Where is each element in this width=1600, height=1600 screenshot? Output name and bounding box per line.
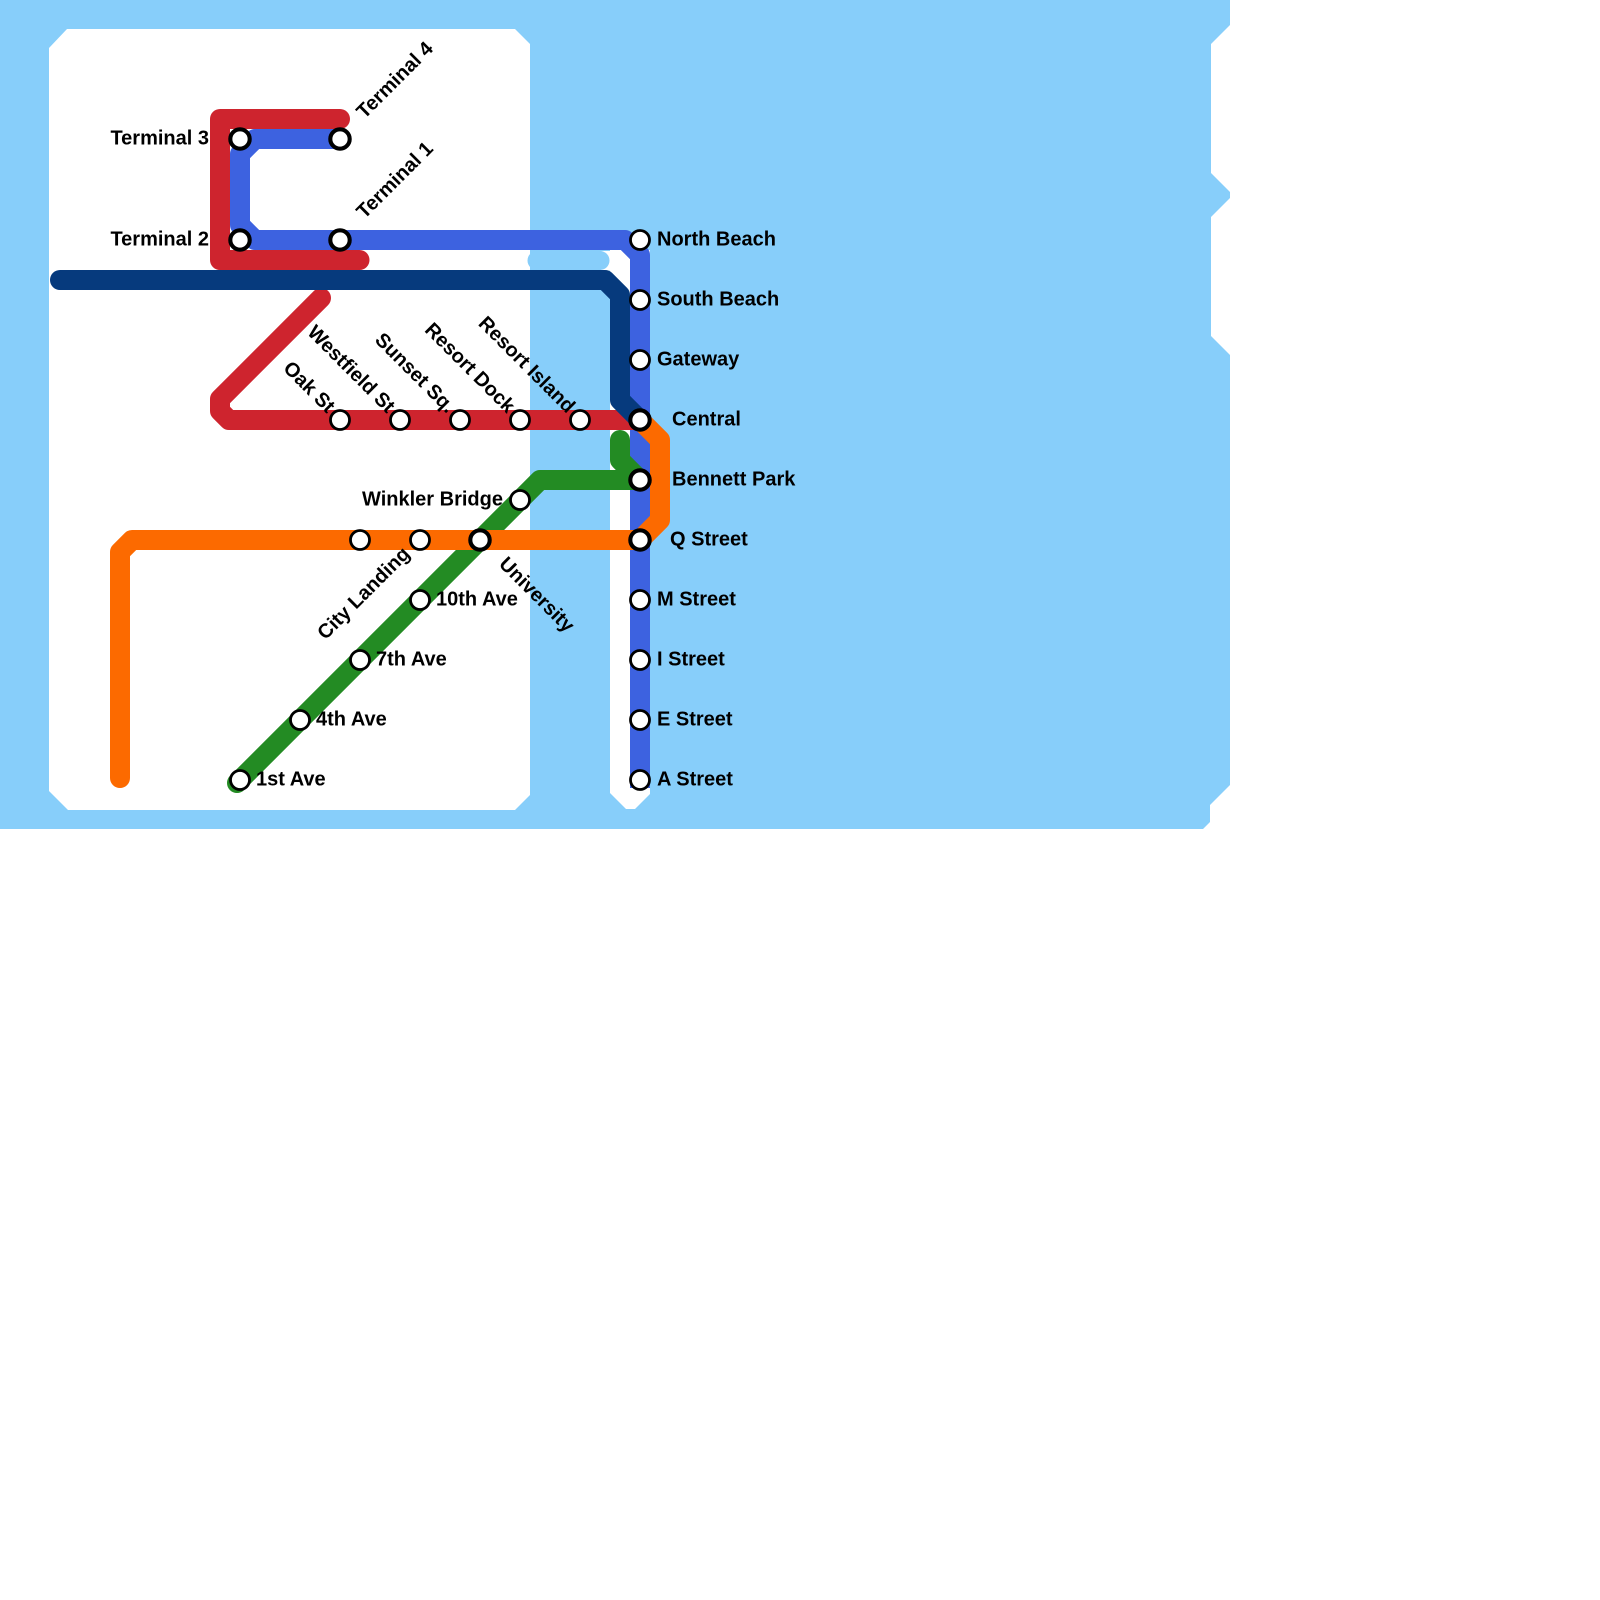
station A Street: [631, 771, 650, 790]
svg-text:10th Ave: 10th Ave: [436, 589, 518, 611]
station 1st Ave: [231, 771, 250, 790]
svg-text:North Beach: North Beach: [657, 229, 776, 251]
svg-text:Terminal 2: Terminal 2: [110, 229, 209, 251]
red line main: [220, 298, 640, 420]
green line central connector: [620, 440, 640, 480]
stations: interchange: [230, 129, 649, 549]
svg-text:1st Ave: 1st Ave: [256, 769, 326, 791]
station Oak St: [331, 411, 350, 430]
svg-text:South Beach: South Beach: [657, 289, 779, 311]
station Central: [630, 410, 649, 429]
svg-text:Bennett Park: Bennett Park: [672, 469, 796, 491]
station Terminal 2: [230, 230, 249, 249]
station North Beach: [631, 231, 650, 250]
station City Landing: [411, 531, 430, 550]
station 10th Ave: [411, 591, 430, 610]
water: [0, 0, 1230, 829]
svg-text:4th Ave: 4th Ave: [316, 709, 387, 731]
stations: regular: [231, 231, 650, 790]
green line main: [237, 480, 640, 783]
labels rotated up-right: [313, 37, 438, 644]
labels horizontal left side: [110, 128, 503, 511]
station 4th Ave: [291, 711, 310, 730]
svg-text:Central: Central: [672, 409, 741, 431]
station Terminal 3: [230, 129, 249, 148]
svg-text:Terminal 3: Terminal 3: [110, 128, 209, 150]
svg-text:7th Ave: 7th Ave: [376, 649, 447, 671]
land wedge at channel end: [601, 251, 611, 271]
station South Beach: [631, 291, 650, 310]
svg-text:Q Street: Q Street: [670, 529, 748, 551]
station Sunset Sq: [451, 411, 470, 430]
blue line cap terminal 4: [331, 129, 351, 149]
station Terminal 4: [330, 129, 349, 148]
station Westfield St: [391, 411, 410, 430]
station Resort Island: [571, 411, 590, 430]
land island left: [49, 29, 530, 810]
orange line: [120, 420, 660, 778]
water channel capsule: [537, 251, 600, 270]
svg-text:A Street: A Street: [657, 769, 733, 791]
station Gateway: [631, 351, 650, 370]
navy line: [60, 280, 640, 420]
labels horizontal right side: [256, 229, 796, 791]
station University: [470, 530, 489, 549]
station Terminal 1: [330, 230, 349, 249]
red line terminal loop: [220, 119, 360, 260]
station Bennett Park: [630, 470, 649, 489]
station E Street: [631, 711, 650, 730]
station Resort Dock: [511, 411, 530, 430]
svg-text:M Street: M Street: [657, 589, 736, 611]
svg-text:Gateway: Gateway: [657, 349, 740, 371]
station I Street: [631, 651, 650, 670]
svg-text:I Street: I Street: [657, 649, 725, 671]
station 7th Ave: [351, 651, 370, 670]
svg-text:Winkler Bridge: Winkler Bridge: [362, 489, 503, 511]
blue line: [240, 139, 640, 788]
station orange west: [351, 531, 370, 550]
labels rotated down-right: [279, 312, 579, 637]
svg-text:E Street: E Street: [657, 709, 733, 731]
station M Street: [631, 591, 650, 610]
land strip right: [610, 250, 650, 809]
station Winkler Bridge: [511, 491, 530, 510]
station Q Street: [630, 530, 649, 549]
